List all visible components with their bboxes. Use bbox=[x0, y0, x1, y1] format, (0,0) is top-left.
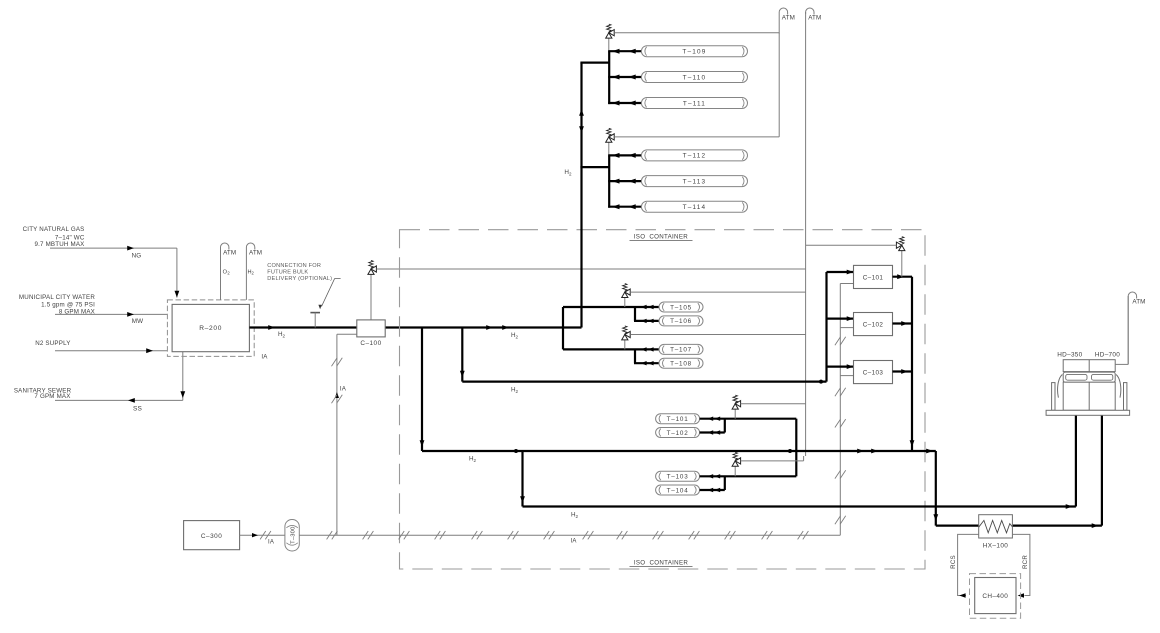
tank T-110 bbox=[641, 72, 747, 83]
svg-text:T–300: T–300 bbox=[291, 526, 297, 543]
wire T-110 stub bbox=[608, 76, 641, 78]
tank T-112 bbox=[641, 150, 747, 161]
svg-text:C–300: C–300 bbox=[201, 533, 222, 540]
wire feed stub C-101 bbox=[827, 271, 854, 273]
wire C-103 discharge bbox=[893, 370, 913, 372]
valve PSV T-101 bank bbox=[734, 409, 736, 419]
svg-text:DELIVERY (OPTIONAL): DELIVERY (OPTIONAL) bbox=[267, 276, 332, 282]
node future bulk delivery connection cap bbox=[310, 312, 320, 314]
svg-text:C–102: C–102 bbox=[863, 322, 884, 329]
svg-text:IA: IA bbox=[261, 354, 268, 361]
wire NG supply line bbox=[50, 247, 177, 249]
wire N2 supply line bbox=[55, 350, 167, 352]
wire T-109 stub bbox=[608, 50, 641, 52]
wire C-101 discharge bbox=[893, 276, 913, 278]
svg-text:CITY NATURAL GAS: CITY NATURAL GAS bbox=[23, 226, 85, 233]
svg-text:RCS: RCS bbox=[950, 555, 957, 569]
wire H2 compressor feed line bbox=[462, 381, 826, 383]
wire T-104 stub bbox=[700, 489, 725, 491]
svg-text:CONNECTION FOR: CONNECTION FOR bbox=[267, 263, 321, 269]
wire T-103 stub bbox=[700, 475, 797, 477]
wire PSV vent to header 2 bbox=[806, 244, 897, 246]
equipment HX-100 heat exchanger bbox=[979, 515, 1013, 538]
wire T-105 bank manifold bbox=[634, 307, 636, 321]
equipment R-200 bbox=[172, 304, 249, 351]
wire T-112 bank manifold bbox=[608, 155, 610, 207]
tank T-108 bbox=[659, 358, 703, 368]
vent O2 to ATM bbox=[221, 243, 229, 300]
svg-text:N2 SUPPLY: N2 SUPPLY bbox=[35, 340, 70, 347]
valve PSV T-103 bank bbox=[734, 466, 736, 476]
svg-text:T–102: T–102 bbox=[667, 430, 689, 437]
wire IA drop to compressors bbox=[839, 284, 841, 536]
svg-text:T–107: T–107 bbox=[670, 347, 692, 354]
svg-text:FUTURE BULK: FUTURE BULK bbox=[267, 270, 308, 276]
svg-text:H2: H2 bbox=[248, 269, 255, 275]
wire H2 branch down to bottom line bbox=[514, 449, 518, 453]
tank T-104 bbox=[656, 485, 700, 495]
svg-text:HX–100: HX–100 bbox=[983, 542, 1009, 549]
wire T-111 stub bbox=[608, 102, 641, 104]
svg-text:T–111: T–111 bbox=[683, 100, 706, 107]
wire T-113 stub bbox=[608, 180, 641, 182]
wire H2 through HX-100 bbox=[936, 524, 1102, 526]
wire C-102 discharge bbox=[893, 322, 913, 324]
svg-text:SS: SS bbox=[133, 406, 143, 413]
wire T-114 stub bbox=[608, 206, 641, 208]
wire SS sewer line bbox=[55, 399, 183, 401]
wire RCS coolant supply bbox=[958, 534, 979, 595]
tank T-107 bbox=[659, 344, 703, 354]
wire dispenser leg HD-350 bbox=[1075, 415, 1077, 506]
svg-text:T–104: T–104 bbox=[667, 487, 689, 494]
equipment C-103 bbox=[854, 361, 893, 384]
svg-text:ATM: ATM bbox=[223, 250, 236, 257]
tank T-105 bbox=[659, 302, 703, 312]
svg-text:HD–350: HD–350 bbox=[1057, 352, 1082, 359]
vent header 2 to ATM bbox=[805, 12, 807, 456]
svg-text:IA: IA bbox=[268, 540, 274, 546]
wire H2 main C-100 to riser bbox=[385, 326, 581, 328]
svg-text:MUNICIPAL CITY WATER: MUNICIPAL CITY WATER bbox=[19, 294, 95, 301]
svg-text:ATM: ATM bbox=[1132, 299, 1145, 306]
wire PSV vent to header 2 bbox=[630, 334, 805, 336]
svg-text:T–106: T–106 bbox=[670, 318, 692, 325]
wire T-108 stub bbox=[634, 362, 659, 364]
equipment C-102 bbox=[854, 313, 893, 336]
wire H2 midline main bbox=[422, 450, 936, 452]
svg-text:T–112: T–112 bbox=[683, 153, 707, 160]
valve PSV compressor discharge bbox=[901, 250, 903, 277]
valve PSV at C-100 bbox=[370, 274, 372, 320]
svg-text:T–109: T–109 bbox=[682, 49, 706, 56]
wire PSV vent to header 2 bbox=[630, 291, 805, 293]
vent H2 to ATM bbox=[246, 243, 254, 300]
wire T-107 bank manifold bbox=[634, 349, 636, 363]
svg-text:IA: IA bbox=[340, 386, 347, 393]
vent header 1 to ATM bbox=[778, 33, 780, 137]
tank T-103 bbox=[656, 471, 700, 481]
equipment C-101 bbox=[854, 265, 893, 288]
wire IA main line bbox=[299, 534, 840, 536]
svg-text:T–114: T–114 bbox=[683, 204, 707, 211]
wire H2 bottom line to dispenser bbox=[523, 505, 1076, 507]
wire PSV vent to ATM header 1 bbox=[614, 32, 779, 34]
wire feed stub C-102 bbox=[827, 318, 854, 320]
equipment C-300 bbox=[184, 521, 240, 550]
wire feed stub C-103 bbox=[827, 366, 854, 368]
svg-text:T–108: T–108 bbox=[670, 361, 692, 368]
wire compressor feed riser bbox=[819, 380, 823, 384]
svg-text:CH–400: CH–400 bbox=[982, 593, 1008, 600]
wire C-100 PSV vent to header bbox=[376, 268, 805, 270]
wire H2 branch down to midline bbox=[421, 328, 423, 452]
svg-text:ISO CONTAINER: ISO CONTAINER bbox=[634, 559, 689, 566]
svg-text:C–101: C–101 bbox=[863, 275, 884, 282]
svg-text:9.7 MBTUH MAX: 9.7 MBTUH MAX bbox=[34, 241, 84, 248]
equipment C-100 bbox=[357, 320, 385, 337]
wire compressor discharge drop to midline bbox=[911, 277, 913, 451]
tank T-113 bbox=[641, 176, 747, 187]
svg-text:T–105: T–105 bbox=[670, 304, 692, 311]
tank T-109 bbox=[641, 46, 747, 57]
svg-text:NG: NG bbox=[132, 253, 142, 260]
wire T-101 stub bbox=[700, 418, 797, 420]
wire T-112 stub bbox=[608, 154, 641, 156]
valve PSV T-109 bank bbox=[608, 38, 610, 51]
wire H2 main R-200 to C-100 bbox=[249, 326, 356, 328]
wire PSV vent to ATM header 1 bbox=[614, 136, 779, 138]
valve PSV T-107 bank bbox=[624, 340, 626, 349]
vent dispenser to ATM bbox=[1115, 363, 1128, 365]
valve PSV T-105 bank bbox=[624, 298, 626, 308]
svg-text:C–103: C–103 bbox=[863, 370, 884, 377]
svg-text:HD–700: HD–700 bbox=[1095, 352, 1120, 359]
wire IA line to C-100 bbox=[337, 333, 357, 335]
tank T-102 bbox=[656, 428, 700, 438]
svg-text:IA: IA bbox=[570, 539, 576, 545]
svg-text:R–200: R–200 bbox=[199, 325, 222, 332]
wire H2 midline drop to HX bbox=[935, 451, 937, 526]
svg-text:MW: MW bbox=[132, 318, 144, 325]
wire PSV vent to header 2 with jog bbox=[741, 460, 804, 462]
svg-text:ATM: ATM bbox=[808, 15, 821, 22]
valve PSV T-112 bank bbox=[608, 142, 610, 155]
wire PSV vent to header 2 bbox=[741, 403, 806, 405]
equipment CH-400 chiller bbox=[975, 578, 1016, 614]
svg-text:RCR: RCR bbox=[1022, 555, 1029, 569]
wire T-109 bank manifold bbox=[608, 51, 610, 104]
svg-text:ATM: ATM bbox=[782, 15, 795, 22]
boundary ISO container bbox=[400, 230, 926, 569]
wire H2 riser to tank banks bbox=[580, 63, 582, 328]
tank T-114 bbox=[641, 201, 747, 212]
equipment CH-400 dashed boundary bbox=[970, 574, 1021, 619]
wire T-101 bank drop to midline bbox=[795, 419, 797, 477]
wire T-109 bank connector bbox=[580, 61, 609, 63]
wire dispenser leg HD-700 bbox=[1101, 415, 1103, 525]
tank T-101 bbox=[656, 414, 700, 424]
svg-text:T–113: T–113 bbox=[683, 178, 707, 185]
wire MW supply line bbox=[55, 313, 167, 315]
wire RCR coolant return bbox=[1012, 534, 1030, 595]
svg-text:ATM: ATM bbox=[249, 250, 262, 257]
wire H2 branch down to compressor feed line bbox=[461, 328, 463, 382]
svg-text:ISO CONTAINER: ISO CONTAINER bbox=[634, 233, 689, 240]
svg-text:T–110: T–110 bbox=[683, 74, 707, 81]
svg-text:T–103: T–103 bbox=[667, 474, 689, 481]
svg-text:C–100: C–100 bbox=[360, 340, 381, 347]
svg-text:7 GPM MAX: 7 GPM MAX bbox=[34, 393, 70, 400]
wire H2 supply to T-107 bank bbox=[562, 328, 564, 350]
wire T-112 bank connector bbox=[580, 166, 609, 168]
wire leader to connection cap bbox=[322, 279, 341, 307]
tank T-106 bbox=[659, 316, 703, 326]
tank T-111 bbox=[641, 98, 747, 109]
wire IA from C-300 to T-300 bbox=[240, 534, 285, 536]
wire H2 supply to T-105 bank bbox=[562, 307, 564, 328]
wire T-106 stub bbox=[634, 320, 659, 322]
wire T-102 stub bbox=[700, 431, 725, 433]
equipment R-200 dashed skid boundary bbox=[167, 300, 254, 357]
svg-text:T–101: T–101 bbox=[667, 416, 689, 423]
tank T-300 air receiver bbox=[285, 520, 299, 552]
